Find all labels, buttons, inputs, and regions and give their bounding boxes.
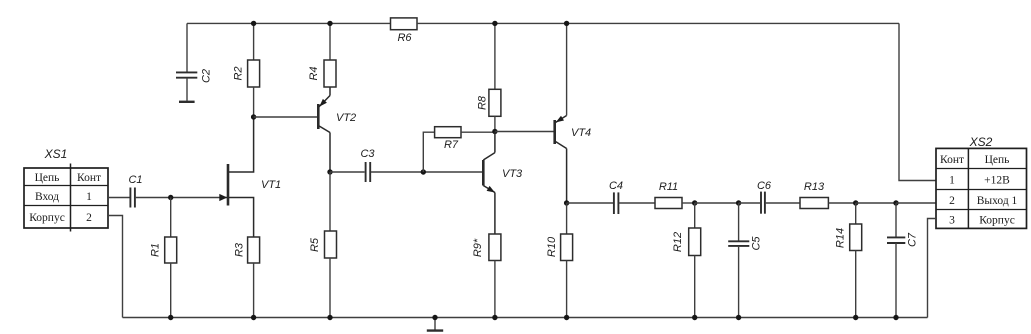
svg-text:Корпус: Корпус [979,215,1015,227]
svg-text:R4: R4 [308,66,320,80]
svg-text:+12В: +12В [984,175,1010,187]
wire XS1 pin1 to C1 [108,197,130,199]
resistor R9 [472,234,501,318]
svg-text:R7: R7 [444,139,459,151]
wire VT2 emitter to C3 [330,171,365,173]
node rail R9 [492,315,497,320]
svg-text:Цепь: Цепь [35,172,60,184]
svg-text:2: 2 [949,195,955,207]
capacitor C3 [360,148,375,182]
node rail C5 [736,315,741,320]
svg-text:Конт: Конт [77,172,101,184]
node C7 top [893,200,898,205]
node rail R14 [853,315,858,320]
resistor R11 [655,181,682,209]
resistor R3 [234,237,260,318]
svg-text:3: 3 [949,215,955,227]
wire XS1 pin2 to ground rail [108,216,123,318]
svg-text:1: 1 [86,191,92,203]
wire node to C5 node [695,202,739,204]
resistor R5 [309,172,337,318]
resistor R2 [233,23,260,117]
svg-text:C4: C4 [609,180,623,192]
wire +12V drop to XS2 pin1 [899,23,936,180]
wire XS2 pin3 to ground rail [928,219,937,318]
svg-text:R13: R13 [804,181,825,193]
svg-text:R6: R6 [397,32,412,44]
wire VT4 emitter to C4 [567,202,613,204]
wire node to VT2 base [254,116,318,118]
svg-text:R1: R1 [150,243,162,257]
resistor R14 [835,203,862,318]
svg-text:Корпус: Корпус [29,212,65,224]
node rail R12 [692,315,697,320]
bottom ground rail [123,317,928,319]
node rail R4 [327,21,332,26]
wire C1 to VT1 base [135,197,227,199]
wire node to VT4 base [495,131,554,133]
svg-text:R8: R8 [477,95,489,110]
svg-text:VT2: VT2 [336,112,356,124]
wire C6 to R13 [766,202,800,204]
resistor R13 [800,181,828,209]
wire C5 node to C6 [739,202,760,204]
wire VT4 collector to +12V rail [566,23,568,115]
wire R7 branch riser [423,132,434,172]
wire C4 to R11 [619,202,655,204]
node rail C7 [893,315,898,320]
svg-text:C5: C5 [751,236,763,251]
node R11 / R12 [692,200,697,205]
node C3 / R7 branch [421,169,426,174]
svg-text:XS2: XS2 [969,135,993,149]
svg-text:VT3: VT3 [502,168,523,180]
svg-text:R12: R12 [672,232,684,252]
node VT2 emitter / R5 / C3 [327,169,332,174]
resistor R12 [672,203,701,318]
transistor VT4 [555,116,591,204]
svg-text:Цепь: Цепь [985,154,1010,166]
node C5 top [736,200,741,205]
svg-text:R10: R10 [546,236,558,257]
resistor R6 [391,18,418,44]
svg-text:Вход: Вход [35,191,59,203]
transistor VT3 [483,132,523,235]
wire node to C7 node [856,202,896,204]
top +12V rail left of R6 [187,22,391,24]
node rail R2 [251,21,256,26]
svg-text:R3: R3 [234,242,246,257]
resistor R10 [546,203,573,318]
wire R11 to node [682,202,695,204]
svg-text:R14: R14 [835,228,847,248]
svg-text:Конт: Конт [940,154,964,166]
svg-text:1: 1 [949,175,955,187]
capacitor C7 [887,203,919,318]
svg-text:C1: C1 [128,174,142,186]
svg-text:VT4: VT4 [571,127,591,139]
svg-text:C2: C2 [201,69,213,83]
node rail VT4 collector [564,21,569,26]
node input junction at R1 top [168,195,173,200]
capacitor C4 [609,180,623,214]
svg-text:R9*: R9* [472,238,484,257]
wire C7 node to XS2 pin2 [896,202,936,204]
node rail R3 [251,315,256,320]
svg-text:C7: C7 [907,232,919,247]
node rail R10 [564,315,569,320]
wire R7 to node [461,131,495,133]
resistor R4 [308,23,336,87]
node rail R5 [327,315,332,320]
node VT4 emitter / R10 / C4 [564,200,569,205]
capacitor C5 [728,203,762,318]
connector XS1 [24,147,108,232]
transistor VT1 [219,117,281,237]
wire R13 to node [828,202,855,204]
node R14 top [853,200,858,205]
svg-text:R2: R2 [233,66,245,80]
transistor VT2 [318,87,356,172]
ground symbol [427,318,443,331]
ground below C2 [179,78,195,102]
node R8 / R7 / VT3 collector / VT4 base [492,129,497,134]
svg-text:XS1: XS1 [44,147,68,161]
node rail R8 [492,21,497,26]
svg-text:R11: R11 [659,181,678,193]
svg-text:R5: R5 [309,237,321,252]
svg-text:VT1: VT1 [261,179,281,191]
capacitor C1 [128,174,142,208]
capacitor C6 [757,180,772,214]
svg-text:C6: C6 [757,180,772,192]
svg-text:2: 2 [86,212,92,224]
resistor R7 [435,127,461,151]
resistor R8 [477,23,501,131]
top +12V rail right of R6 [417,22,899,24]
connector XS2 [936,135,1027,228]
node VT1 collector / R2 / VT2 base [251,114,256,119]
wire C3 to VT3 base [371,171,483,173]
resistor R1 [150,198,177,318]
capacitor C2 [176,23,213,83]
svg-text:Выход 1: Выход 1 [977,195,1018,207]
svg-text:C3: C3 [360,148,375,160]
node ground rail ground-symbol [432,315,437,320]
node rail R1 [168,315,173,320]
